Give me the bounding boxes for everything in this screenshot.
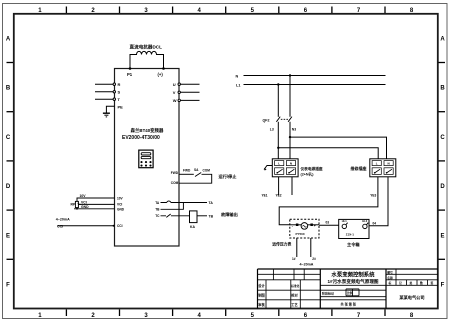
terminal GND	[117, 208, 125, 212]
svg-text:YE3: YE3	[370, 194, 376, 198]
svg-text:YE1: YE1	[262, 194, 268, 198]
svg-text:03: 03	[326, 221, 330, 225]
svg-text:主令箱: 主令箱	[347, 241, 360, 248]
node junction N3	[289, 136, 291, 138]
svg-text:TA: TA	[155, 201, 160, 205]
rail N	[244, 75, 386, 77]
svg-text:N: N	[290, 162, 292, 166]
svg-text:E: E	[440, 233, 444, 239]
svg-text:C: C	[440, 135, 445, 141]
svg-text:N3: N3	[292, 128, 296, 132]
node tap N	[289, 74, 291, 76]
svg-text:审核: 审核	[258, 302, 265, 307]
svg-text:处: 处	[409, 281, 413, 285]
wire GND	[74, 208, 115, 209]
svg-text:(2+N孔): (2+N孔)	[301, 172, 315, 177]
svg-text:(+): (+)	[158, 72, 164, 77]
svg-text:HL1: HL1	[342, 219, 347, 223]
terminal COM	[171, 181, 179, 185]
terminal R	[113, 82, 120, 87]
svg-text:-: -	[292, 224, 293, 228]
svg-text:L: L	[278, 162, 280, 166]
inverter U1 box	[115, 69, 180, 247]
svg-text:CCI: CCI	[117, 224, 123, 228]
svg-text:L3: L3	[270, 128, 274, 132]
svg-text:B: B	[440, 86, 445, 92]
svg-text:B: B	[6, 86, 11, 92]
svg-text:水泵变频控制系统: 水泵变频控制系统	[331, 270, 375, 278]
svg-text:QF2: QF2	[263, 118, 270, 122]
svg-text:运行/停止: 运行/停止	[219, 173, 238, 180]
svg-text:T: T	[118, 97, 121, 102]
terminal PE	[118, 104, 124, 109]
svg-text:直流电抗器DCL: 直流电抗器DCL	[130, 44, 163, 51]
inverter U1 name label	[122, 127, 164, 141]
wire T input	[95, 98, 113, 100]
svg-text:F: F	[6, 283, 10, 289]
node (+)	[158, 67, 165, 77]
svg-text:数: 数	[419, 281, 423, 285]
svg-text:FWD: FWD	[171, 171, 179, 175]
svg-text:GND: GND	[81, 205, 89, 209]
terminal TB	[155, 208, 160, 212]
terminal TC	[155, 214, 160, 218]
rail L1	[244, 84, 386, 86]
wire YE1	[278, 177, 280, 195]
svg-text:RP: RP	[71, 203, 76, 207]
svg-text:设计: 设计	[258, 283, 265, 288]
svg-text:森兰BT40变频器: 森兰BT40变频器	[130, 127, 164, 134]
wire V output	[181, 91, 200, 93]
terminal CCI	[117, 224, 123, 228]
svg-text:D: D	[6, 184, 11, 190]
ground PE socket	[264, 166, 272, 170]
wire N drop	[289, 76, 291, 117]
svg-text:记: 记	[399, 281, 402, 285]
svg-text:标: 标	[388, 281, 392, 285]
wire 1#	[296, 238, 298, 257]
svg-text:CCI: CCI	[57, 225, 63, 229]
svg-text:E: E	[6, 233, 10, 239]
wire N to service socket	[290, 137, 387, 159]
wire FWD	[179, 173, 194, 175]
dc reactor DCL	[130, 51, 164, 68]
wire 04 from alarm box	[369, 177, 388, 226]
switch SA run/stop	[179, 173, 212, 184]
svg-text:工艺: 工艺	[291, 302, 298, 307]
svg-text:校对: 校对	[291, 293, 298, 298]
svg-text:TA: TA	[209, 201, 214, 205]
svg-text:D: D	[440, 184, 445, 190]
svg-text:签: 签	[430, 281, 434, 285]
wire 03 gauge to alarm	[319, 224, 339, 226]
svg-text:比例: 比例	[347, 291, 353, 295]
svg-text:10V: 10V	[80, 194, 87, 198]
svg-text:2#: 2#	[312, 257, 316, 261]
svg-text:远传压力表: 远传压力表	[272, 242, 291, 247]
svg-text:某某电气公司: 某某电气公司	[399, 294, 424, 301]
svg-text:PY500: PY500	[296, 232, 305, 236]
svg-text:仪表电源插座: 仪表电源插座	[300, 166, 323, 171]
svg-text:图号: 图号	[387, 270, 393, 274]
terminal W	[173, 98, 181, 103]
svg-text:C: C	[6, 135, 11, 141]
node junction L3	[277, 147, 279, 149]
svg-text:ZJX-1: ZJX-1	[346, 232, 355, 236]
svg-text:N: N	[388, 162, 390, 166]
svg-text:A: A	[6, 37, 11, 43]
ground PE	[103, 113, 110, 117]
svg-text:维修插座: 维修插座	[351, 165, 367, 171]
lamp HL1	[342, 223, 348, 229]
svg-text:制图: 制图	[258, 293, 264, 298]
svg-text:A: A	[440, 37, 445, 43]
svg-text:TB: TB	[155, 208, 160, 212]
svg-text:KA: KA	[190, 225, 195, 229]
svg-text:1#: 1#	[292, 257, 296, 261]
svg-text:YE2: YE2	[276, 194, 282, 198]
svg-text:名称: 名称	[387, 276, 393, 280]
terminal FWD	[171, 171, 179, 175]
svg-text:VCI: VCI	[81, 200, 87, 204]
node tap L1	[277, 83, 279, 85]
svg-text:TB: TB	[209, 214, 214, 218]
wire N3	[289, 122, 291, 159]
wire YE2	[291, 177, 293, 195]
potentiometer RP	[75, 201, 80, 207]
svg-text:EV2000-4T30/00: EV2000-4T30/00	[122, 135, 160, 141]
terminal V	[173, 90, 181, 95]
socket X2 service	[370, 159, 396, 177]
relay coil KA	[190, 211, 198, 223]
svg-text:SA: SA	[194, 168, 199, 172]
svg-text:标准化: 标准化	[290, 284, 299, 288]
svg-text:W: W	[173, 98, 177, 103]
svg-text:U: U	[173, 82, 176, 87]
breaker QF2	[276, 117, 292, 122]
wire R input	[95, 83, 113, 85]
svg-text:F: F	[441, 283, 445, 289]
svg-text:S: S	[118, 90, 121, 95]
wire 2#	[310, 238, 312, 257]
wire PE	[106, 106, 114, 113]
relay contact TC	[161, 214, 190, 217]
wire YE3 loop to gauge	[279, 177, 378, 225]
lamp HL2	[363, 223, 369, 229]
svg-text:故障输出: 故障输出	[221, 211, 238, 218]
terminal TA	[155, 201, 160, 205]
socket X1 instrument power	[272, 159, 298, 177]
wire VCI wiper	[78, 203, 115, 204]
svg-text:P1: P1	[127, 72, 133, 77]
wire L3	[277, 122, 279, 159]
svg-text:1#污水泵变频电气原理图: 1#污水泵变频电气原理图	[327, 278, 378, 285]
svg-text:04: 04	[373, 222, 377, 226]
svg-text:PE: PE	[118, 104, 124, 109]
svg-text:N: N	[236, 74, 239, 78]
svg-text:VCI: VCI	[117, 203, 122, 207]
svg-text:L1: L1	[236, 83, 240, 87]
terminal T	[113, 97, 120, 102]
wire TB out	[197, 215, 207, 217]
svg-text:阶段标记: 阶段标记	[322, 291, 334, 296]
svg-text:4~20mA: 4~20mA	[300, 262, 314, 266]
terminal VCI	[117, 203, 122, 207]
wire L drop	[277, 85, 279, 117]
node P1	[127, 67, 133, 77]
wire CCI 4-20mA	[58, 225, 115, 227]
svg-text:V: V	[173, 90, 176, 95]
svg-text:10V: 10V	[117, 196, 124, 200]
terminal U	[173, 82, 181, 87]
svg-text:+: +	[314, 224, 316, 228]
svg-text:L: L	[376, 162, 378, 166]
svg-text:GND: GND	[117, 208, 125, 212]
wire W output	[181, 99, 200, 101]
svg-text:共 张 第 张: 共 张 第 张	[341, 302, 357, 307]
alarm box	[339, 219, 369, 238]
svg-text:TC: TC	[155, 214, 160, 218]
wire U output	[181, 83, 200, 85]
svg-text:COM: COM	[203, 169, 211, 173]
svg-text:COM: COM	[171, 181, 179, 185]
terminal S	[113, 90, 120, 95]
wire S input	[95, 91, 113, 93]
svg-text:FWD: FWD	[183, 169, 191, 173]
keypad panel	[139, 150, 153, 168]
relay contact TA-TB	[161, 201, 184, 209]
terminal 10V	[117, 196, 124, 200]
title block	[258, 269, 439, 309]
svg-text:HL2: HL2	[362, 219, 367, 223]
pressure gauge P dashed box	[290, 219, 319, 238]
wire 10V	[77, 198, 115, 201]
wire L to service socket	[278, 148, 378, 159]
wire TA out	[183, 202, 207, 204]
svg-text:4~20mA: 4~20mA	[56, 218, 70, 222]
svg-text:R: R	[118, 82, 121, 87]
